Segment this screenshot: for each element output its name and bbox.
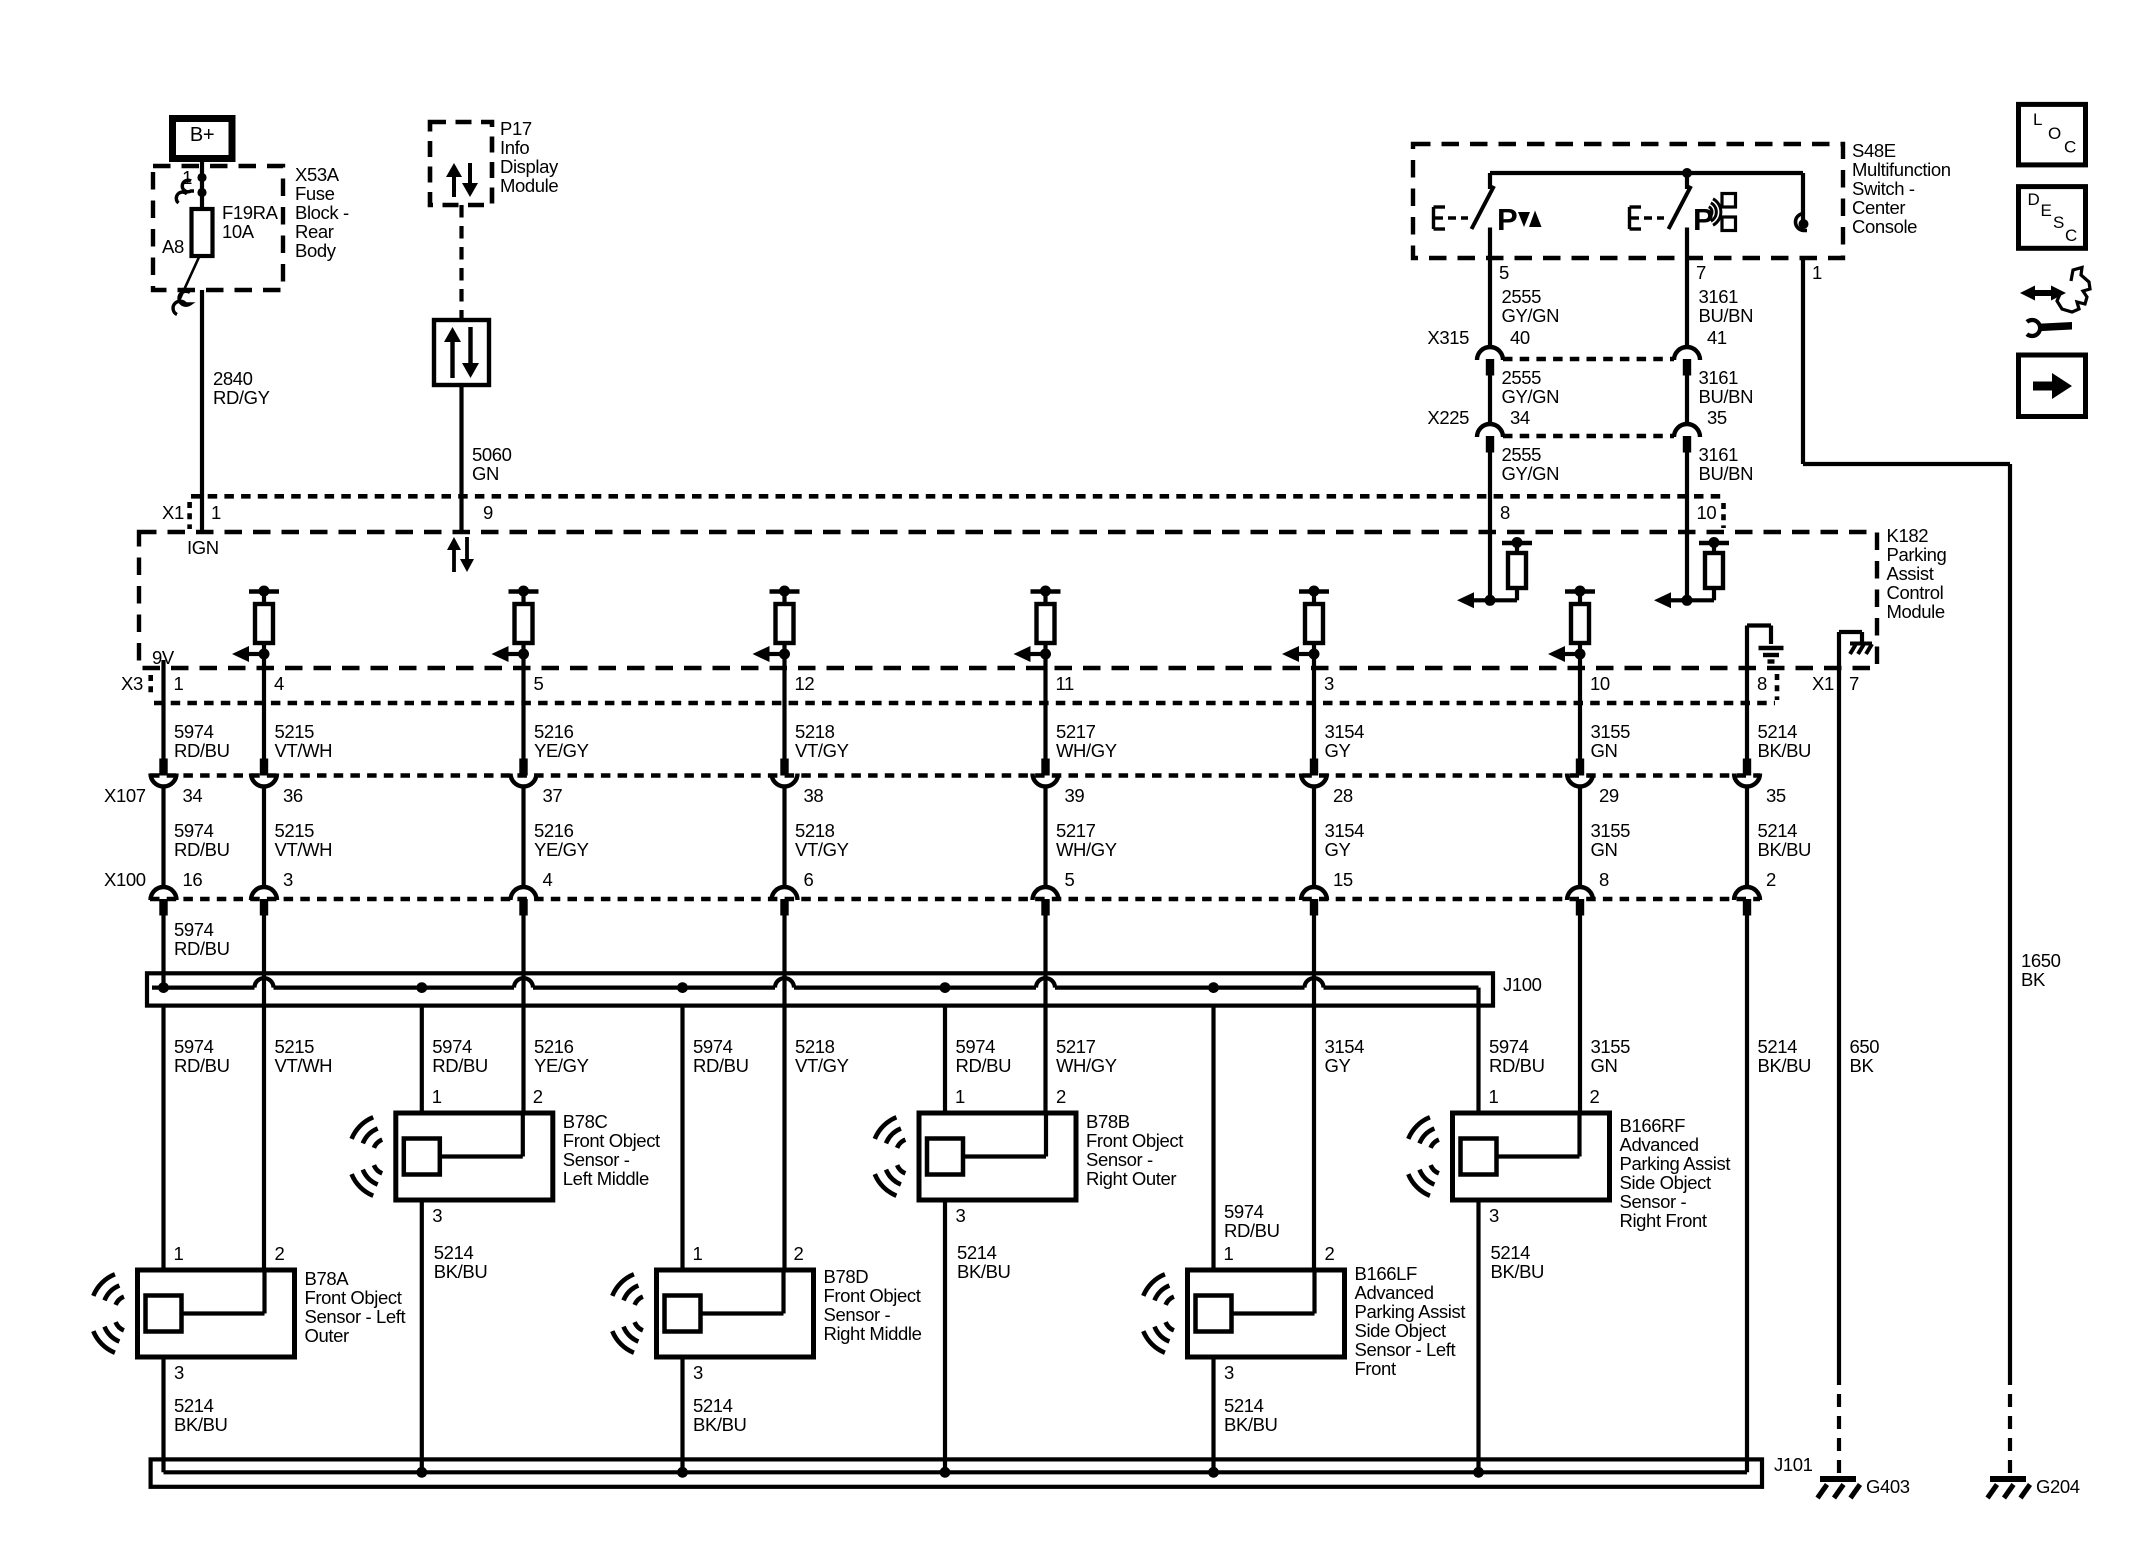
svg-text:39: 39 <box>1065 785 1085 806</box>
svg-text:1: 1 <box>1224 1243 1234 1264</box>
svg-text:RD/BU: RD/BU <box>1224 1220 1280 1241</box>
svg-text:6: 6 <box>804 869 814 890</box>
svg-text:3155: 3155 <box>1591 721 1631 742</box>
svg-text:X107: X107 <box>104 785 146 806</box>
fuse holder clip top <box>182 180 194 192</box>
svg-text:2555: 2555 <box>1502 367 1542 388</box>
svg-text:Front Object: Front Object <box>305 1287 402 1308</box>
svg-text:Front Object: Front Object <box>824 1285 921 1306</box>
svg-text:5974: 5974 <box>693 1036 733 1057</box>
svg-text:VT/WH: VT/WH <box>275 740 333 761</box>
svg-text:12: 12 <box>795 673 815 694</box>
wire 2555 GY/GN segment 3 <box>1488 453 1492 533</box>
wire 5214 BK/BU X3 to X107 <box>1745 668 1749 759</box>
svg-text:5214: 5214 <box>1491 1242 1531 1263</box>
wire 5215 VT/WH below J100 <box>262 1006 266 1270</box>
svg-text:5217: 5217 <box>1056 820 1096 841</box>
svg-text:2555: 2555 <box>1502 444 1542 465</box>
svg-text:5: 5 <box>1065 869 1075 890</box>
svg-text:5215: 5215 <box>275 721 315 742</box>
battery B+ terminal <box>173 119 233 159</box>
svg-text:E: E <box>2041 201 2052 220</box>
wire 5215 VT/WH X107 to X100 <box>262 786 266 887</box>
wire 650 BK from K182 X1-7 <box>1837 668 1841 1372</box>
svg-text:G403: G403 <box>1866 1476 1910 1497</box>
svg-text:3: 3 <box>956 1205 966 1226</box>
svg-text:P17: P17 <box>500 118 532 139</box>
K182 internal chassis ground at X1-7 <box>1837 632 1841 668</box>
svg-text:41: 41 <box>1707 327 1727 348</box>
B78D pin 2 internal wire <box>781 1270 785 1314</box>
svg-text:Right Middle: Right Middle <box>824 1323 922 1344</box>
svg-text:5974: 5974 <box>956 1036 996 1057</box>
svg-text:Sensor -: Sensor - <box>563 1149 630 1170</box>
B166LF sound waves icon <box>1166 1297 1174 1305</box>
svg-text:4: 4 <box>274 673 284 694</box>
svg-text:Front Object: Front Object <box>1086 1130 1183 1151</box>
svg-text:1: 1 <box>432 1086 442 1107</box>
svg-text:Multifunction: Multifunction <box>1852 159 1951 180</box>
svg-text:5974: 5974 <box>174 1036 214 1057</box>
svg-text:A8: A8 <box>162 236 184 257</box>
B78B pin 2 internal wire <box>1044 1113 1048 1157</box>
wire 2555 GY/GN segment 2 <box>1488 376 1492 425</box>
svg-text:IGN: IGN <box>187 537 219 558</box>
wire to J100 crossing <box>262 916 266 974</box>
K182 internal resistor at X1-8 <box>1488 532 1492 600</box>
svg-text:GN: GN <box>1591 839 1618 860</box>
svg-text:2: 2 <box>1766 869 1776 890</box>
wire 3154 GY X107 to X100 <box>1312 786 1316 887</box>
svg-text:Side Object: Side Object <box>1355 1320 1446 1341</box>
J101 internal bus <box>164 1470 1748 1474</box>
svg-text:X53A: X53A <box>295 164 340 185</box>
svg-text:36: 36 <box>283 785 303 806</box>
svg-text:O: O <box>2048 124 2061 143</box>
svg-text:RD/BU: RD/BU <box>174 1055 230 1076</box>
svg-text:3: 3 <box>1489 1205 1499 1226</box>
wire 5214 BK/BU sensor pin3 to J101 <box>1476 1199 1480 1472</box>
wire 5214 BK/BU sensor pin3 to J101 <box>420 1199 424 1472</box>
svg-text:B78D: B78D <box>824 1266 869 1287</box>
fuse holder clip bottom <box>176 192 187 203</box>
svg-text:BK/BU: BK/BU <box>693 1414 747 1435</box>
svg-text:Rear: Rear <box>295 221 334 242</box>
svg-text:BK/BU: BK/BU <box>1224 1414 1278 1435</box>
svg-text:7: 7 <box>1696 262 1706 283</box>
svg-text:GY/GN: GY/GN <box>1502 305 1560 326</box>
svg-text:C: C <box>2064 138 2076 157</box>
wire to J100 crossing <box>1043 916 1047 974</box>
svg-text:Sensor - Left: Sensor - Left <box>1355 1339 1456 1360</box>
connector X1 dotted line <box>191 494 1722 499</box>
svg-text:8: 8 <box>1757 673 1767 694</box>
svg-text:2: 2 <box>275 1243 285 1264</box>
svg-text:5214: 5214 <box>1758 1036 1798 1057</box>
svg-text:Module: Module <box>500 175 558 196</box>
svg-text:40: 40 <box>1510 327 1530 348</box>
svg-text:B78C: B78C <box>563 1111 608 1132</box>
svg-text:5214: 5214 <box>174 1395 214 1416</box>
svg-text:BK: BK <box>1850 1055 1875 1076</box>
sensor B78A box <box>138 1270 295 1357</box>
svg-text:37: 37 <box>543 785 563 806</box>
wire to J100 crossing <box>782 916 786 974</box>
svg-text:X315: X315 <box>1427 327 1469 348</box>
svg-text:5974: 5974 <box>174 820 214 841</box>
svg-text:Body: Body <box>295 240 337 261</box>
svg-text:5974: 5974 <box>174 721 214 742</box>
svg-text:2: 2 <box>1056 1086 1066 1107</box>
svg-text:J100: J100 <box>1503 974 1542 995</box>
svg-text:P: P <box>1497 202 1517 237</box>
svg-text:WH/GY: WH/GY <box>1056 740 1117 761</box>
svg-text:5060: 5060 <box>472 444 512 465</box>
svg-text:1: 1 <box>211 502 221 523</box>
B78A inner transducer square <box>146 1296 182 1332</box>
wire 5217 WH/GY X3 to X107 <box>1043 668 1047 759</box>
dashed wire P17 to splice <box>459 205 463 320</box>
svg-text:BK/BU: BK/BU <box>174 1414 228 1435</box>
K182 internal resistor at X3-3 <box>1299 589 1329 594</box>
J100 internal bus with hops <box>152 985 255 989</box>
svg-text:3161: 3161 <box>1699 286 1739 307</box>
wire 5214 BK/BU X107 to X100 <box>1745 786 1749 887</box>
J101 splice dots <box>416 1467 427 1478</box>
svg-text:D: D <box>2028 190 2040 209</box>
svg-text:5214: 5214 <box>693 1395 733 1416</box>
legend arrow box <box>2019 355 2086 417</box>
svg-text:28: 28 <box>1333 785 1353 806</box>
svg-text:5214: 5214 <box>1224 1395 1264 1416</box>
sensor B78C box <box>396 1113 553 1200</box>
K182 internal earth ground at X3-8 <box>1745 626 1749 669</box>
svg-text:B166RF: B166RF <box>1620 1115 1686 1136</box>
svg-text:BU/BN: BU/BN <box>1699 386 1754 407</box>
B78A sound waves icon <box>116 1297 124 1305</box>
K182 internal resistor at X3-5 <box>509 589 539 594</box>
wire 3155 GN X107 to X100 <box>1578 786 1582 887</box>
svg-text:1: 1 <box>955 1086 965 1107</box>
wire 5974 RD/BU below J100 <box>161 1006 165 1270</box>
svg-text:3155: 3155 <box>1591 820 1631 841</box>
connector X3 dotted line <box>154 701 1775 706</box>
B78D sound waves icon <box>635 1297 643 1305</box>
wire 3154 GY below J100 <box>1312 1006 1316 1270</box>
wire 5974 RD/BU X100 to J100 <box>161 916 165 988</box>
svg-text:Info: Info <box>500 137 529 158</box>
svg-text:3: 3 <box>174 1362 184 1383</box>
svg-text:VT/WH: VT/WH <box>275 839 333 860</box>
svg-text:Assist: Assist <box>1887 563 1934 584</box>
svg-text:GY/GN: GY/GN <box>1502 463 1560 484</box>
wire 5214 BK/BU X100 to J101 <box>1745 916 1749 1473</box>
wire 5217 WH/GY below J100 <box>1043 1006 1047 1113</box>
fuse pull-out link <box>178 256 200 303</box>
svg-text:29: 29 <box>1599 785 1619 806</box>
svg-text:Right Front: Right Front <box>1620 1210 1707 1231</box>
svg-text:5218: 5218 <box>795 1036 835 1057</box>
svg-text:34: 34 <box>1510 407 1530 428</box>
svg-text:Parking Assist: Parking Assist <box>1355 1301 1466 1322</box>
module P17 Info Display dashed box <box>430 122 492 205</box>
svg-text:5217: 5217 <box>1056 721 1096 742</box>
switch 2 E actuator <box>1628 207 1631 229</box>
wire 5214 BK/BU sensor pin3 to J101 <box>943 1199 947 1472</box>
svg-text:2: 2 <box>1590 1086 1600 1107</box>
svg-text:WH/GY: WH/GY <box>1056 839 1117 860</box>
svg-text:3: 3 <box>283 869 293 890</box>
svg-text:5974: 5974 <box>174 919 214 940</box>
B78C inner transducer square <box>404 1139 440 1175</box>
svg-text:GY: GY <box>1325 740 1351 761</box>
svg-text:RD/GY: RD/GY <box>213 387 270 408</box>
svg-text:Display: Display <box>500 156 559 177</box>
svg-text:3161: 3161 <box>1699 367 1739 388</box>
svg-text:10A: 10A <box>222 221 255 242</box>
svg-text:35: 35 <box>1766 785 1786 806</box>
svg-text:S48E: S48E <box>1852 140 1896 161</box>
svg-text:Switch -: Switch - <box>1852 178 1915 199</box>
svg-text:RD/BU: RD/BU <box>174 740 230 761</box>
svg-text:2: 2 <box>794 1243 804 1264</box>
wire 3161 BU/BN segment 2 <box>1685 376 1689 425</box>
legend service icon: double arrow, outline, wrench <box>2031 290 2055 296</box>
svg-text:X3: X3 <box>121 673 143 694</box>
legend wrench <box>2027 320 2040 336</box>
svg-text:RD/BU: RD/BU <box>956 1055 1012 1076</box>
svg-text:5218: 5218 <box>795 820 835 841</box>
svg-text:Left Middle: Left Middle <box>563 1168 649 1189</box>
K182 internal resistor at X3-4 <box>249 589 279 594</box>
svg-text:B166LF: B166LF <box>1355 1263 1417 1284</box>
svg-text:C: C <box>2065 226 2077 245</box>
wire 5974 RD/BU below J100 <box>943 1006 947 1113</box>
svg-text:35: 35 <box>1707 407 1727 428</box>
switch 1 E actuator <box>1432 207 1435 229</box>
B166RF sound waves icon <box>1431 1140 1439 1148</box>
svg-text:5214: 5214 <box>1758 721 1798 742</box>
svg-text:16: 16 <box>183 869 203 890</box>
svg-text:5215: 5215 <box>275 820 315 841</box>
svg-text:B+: B+ <box>190 124 214 146</box>
B78C pin 2 internal wire <box>521 1113 525 1157</box>
wire 5974 RD/BU below J100 <box>420 1006 424 1113</box>
svg-text:Module: Module <box>1887 601 1945 622</box>
svg-text:RD/BU: RD/BU <box>1489 1055 1545 1076</box>
svg-text:3: 3 <box>432 1205 442 1226</box>
svg-text:34: 34 <box>183 785 203 806</box>
svg-text:VT/GY: VT/GY <box>795 740 849 761</box>
svg-text:5214: 5214 <box>1758 820 1798 841</box>
svg-text:Sensor - Left: Sensor - Left <box>305 1306 406 1327</box>
module K182 Parking Assist Control Module dashed box <box>139 532 1877 668</box>
wire 5974 RD/BU below J100 <box>680 1006 684 1270</box>
svg-text:5974: 5974 <box>432 1036 472 1057</box>
wire 5214 BK/BU sensor pin3 to J101 <box>680 1357 684 1472</box>
svg-text:Block -: Block - <box>295 202 349 223</box>
svg-text:J101: J101 <box>1774 1454 1813 1475</box>
svg-text:X1: X1 <box>1812 673 1834 694</box>
svg-text:5215: 5215 <box>275 1036 315 1057</box>
svg-text:1: 1 <box>174 1243 184 1264</box>
svg-text:Parking: Parking <box>1887 544 1947 565</box>
svg-text:2: 2 <box>533 1086 543 1107</box>
svg-text:YE/GY: YE/GY <box>534 1055 589 1076</box>
svg-text:B78A: B78A <box>305 1268 350 1289</box>
svg-text:BK/BU: BK/BU <box>434 1261 488 1282</box>
svg-text:B78B: B78B <box>1086 1111 1130 1132</box>
S48E internal bus wire <box>1490 171 1803 175</box>
svg-text:YE/GY: YE/GY <box>534 740 589 761</box>
sensor B78B box <box>919 1113 1076 1200</box>
svg-text:Console: Console <box>1852 216 1917 237</box>
svg-text:RD/BU: RD/BU <box>174 938 230 959</box>
svg-text:Sensor -: Sensor - <box>1620 1191 1687 1212</box>
svg-text:2555: 2555 <box>1502 286 1542 307</box>
svg-text:5: 5 <box>1499 262 1509 283</box>
switch 1 (camera/park assist) <box>1488 173 1492 189</box>
B166LF inner transducer square <box>1196 1296 1232 1332</box>
svg-text:7: 7 <box>1849 673 1859 694</box>
svg-text:5214: 5214 <box>434 1242 474 1263</box>
B166LF pin 2 internal wire <box>1312 1270 1316 1314</box>
svg-text:Center: Center <box>1852 197 1905 218</box>
svg-text:VT/GY: VT/GY <box>795 1055 849 1076</box>
B78B inner transducer square <box>927 1139 963 1175</box>
svg-text:Right Outer: Right Outer <box>1086 1168 1176 1189</box>
svg-text:VT/WH: VT/WH <box>275 1055 333 1076</box>
svg-text:5974: 5974 <box>1489 1036 1529 1057</box>
svg-text:Advanced: Advanced <box>1355 1282 1434 1303</box>
wire to J100 crossing <box>521 916 525 974</box>
svg-text:3: 3 <box>693 1362 703 1383</box>
svg-text:Control: Control <box>1887 582 1944 603</box>
svg-text:5216: 5216 <box>534 721 574 742</box>
svg-text:650: 650 <box>1850 1036 1880 1057</box>
svg-text:K182: K182 <box>1887 525 1929 546</box>
B78A pin 2 internal wire <box>262 1270 266 1314</box>
svg-text:5217: 5217 <box>1056 1036 1096 1057</box>
svg-text:BU/BN: BU/BN <box>1699 463 1754 484</box>
svg-text:1: 1 <box>1489 1086 1499 1107</box>
svg-text:BK/BU: BK/BU <box>957 1261 1011 1282</box>
P17 serial data arrows <box>452 175 456 197</box>
svg-text:11: 11 <box>1056 673 1075 694</box>
svg-text:5218: 5218 <box>795 721 835 742</box>
svg-text:WH/GY: WH/GY <box>1056 1055 1117 1076</box>
K182 internal resistor at X1-10 <box>1685 532 1689 600</box>
svg-text:VT/GY: VT/GY <box>795 839 849 860</box>
B78B sound waves icon <box>897 1140 905 1148</box>
svg-text:BK/BU: BK/BU <box>1491 1261 1545 1282</box>
svg-text:G204: G204 <box>2036 1476 2080 1497</box>
svg-text:3154: 3154 <box>1325 1036 1365 1057</box>
svg-text:Sensor -: Sensor - <box>824 1304 891 1325</box>
svg-text:5974: 5974 <box>1224 1201 1264 1222</box>
B78C sound waves icon <box>374 1140 382 1148</box>
svg-text:GN: GN <box>1591 740 1618 761</box>
fuse holder clip lower-left <box>179 291 190 305</box>
wire 2555 GY/GN segment 1 <box>1488 258 1492 347</box>
wire 5218 VT/GY X3 to X107 <box>782 668 786 759</box>
connector X100 dotted line <box>150 897 1760 902</box>
K182 serial arrows at pin 9 <box>452 548 456 572</box>
svg-text:L: L <box>2033 110 2042 129</box>
wire 5218 VT/GY X107 to X100 <box>782 786 786 887</box>
svg-text:10: 10 <box>1697 502 1717 523</box>
svg-text:Front: Front <box>1355 1358 1396 1379</box>
svg-text:1: 1 <box>174 673 184 694</box>
svg-text:5: 5 <box>534 673 544 694</box>
connector X107 dotted line <box>150 773 1760 778</box>
ground G403 <box>1820 1476 1856 1482</box>
svg-text:Outer: Outer <box>305 1325 350 1346</box>
svg-text:Side Object: Side Object <box>1620 1172 1711 1193</box>
wire 5974 RD/BU below J100 <box>1476 1006 1480 1113</box>
legend DESC box <box>2019 187 2086 249</box>
svg-text:Parking Assist: Parking Assist <box>1620 1153 1731 1174</box>
svg-text:BK/BU: BK/BU <box>1758 1055 1812 1076</box>
splice pack J101 box <box>151 1459 1762 1486</box>
K182 internal resistor at X3-11 <box>1031 589 1061 594</box>
svg-text:3154: 3154 <box>1325 721 1365 742</box>
svg-text:X225: X225 <box>1427 407 1469 428</box>
svg-text:BK/BU: BK/BU <box>1758 839 1812 860</box>
svg-text:Advanced: Advanced <box>1620 1134 1699 1155</box>
S48E case clip pin 1 <box>1801 173 1805 224</box>
switch assembly S48E dashed box <box>1413 144 1843 258</box>
wire 1650 BK from S48E pin 1 <box>1801 258 1805 464</box>
svg-text:X100: X100 <box>104 869 146 890</box>
K182 internal resistor at X3-12 <box>770 589 800 594</box>
wire 3155 GN X100 to B166RF pin 2 <box>1578 916 1582 1114</box>
B78D inner transducer square <box>665 1296 701 1332</box>
fuse block X53A dashed box <box>153 166 283 290</box>
svg-text:GY: GY <box>1325 839 1351 860</box>
svg-text:3: 3 <box>1324 673 1334 694</box>
svg-text:15: 15 <box>1333 869 1353 890</box>
svg-text:S: S <box>2053 213 2064 232</box>
svg-text:5214: 5214 <box>957 1242 997 1263</box>
svg-text:3161: 3161 <box>1699 444 1739 465</box>
wire 5218 VT/GY below J100 <box>782 1006 786 1270</box>
svg-text:1650: 1650 <box>2021 950 2061 971</box>
wire 2840 RD/GY <box>200 290 204 532</box>
J100 splice dots <box>158 982 169 993</box>
svg-text:BK: BK <box>2021 969 2046 990</box>
svg-text:Fuse: Fuse <box>295 183 335 204</box>
svg-text:5216: 5216 <box>534 820 574 841</box>
svg-text:GY/GN: GY/GN <box>1502 386 1560 407</box>
svg-text:F19RA: F19RA <box>222 202 279 223</box>
svg-text:RD/BU: RD/BU <box>432 1055 488 1076</box>
J100 bus bend to B166RF pin1 <box>1476 988 1480 1006</box>
B166RF pin 2 internal wire <box>1577 1113 1581 1157</box>
svg-text:Sensor -: Sensor - <box>1086 1149 1153 1170</box>
svg-text:2840: 2840 <box>213 368 253 389</box>
svg-text:GY: GY <box>1325 1055 1351 1076</box>
wire 5214 BK/BU sensor pin3 to J101 <box>161 1357 165 1472</box>
wire 5214 BK/BU sensor pin3 to J101 <box>1211 1357 1215 1472</box>
svg-text:4: 4 <box>543 869 553 890</box>
wire 3155 GN X3 to X107 <box>1578 668 1582 759</box>
wire 5216 YE/GY X3 to X107 <box>521 668 525 759</box>
svg-text:BU/BN: BU/BN <box>1699 305 1754 326</box>
svg-text:9: 9 <box>483 502 493 523</box>
svg-text:Front Object: Front Object <box>563 1130 660 1151</box>
svg-text:GN: GN <box>472 463 499 484</box>
